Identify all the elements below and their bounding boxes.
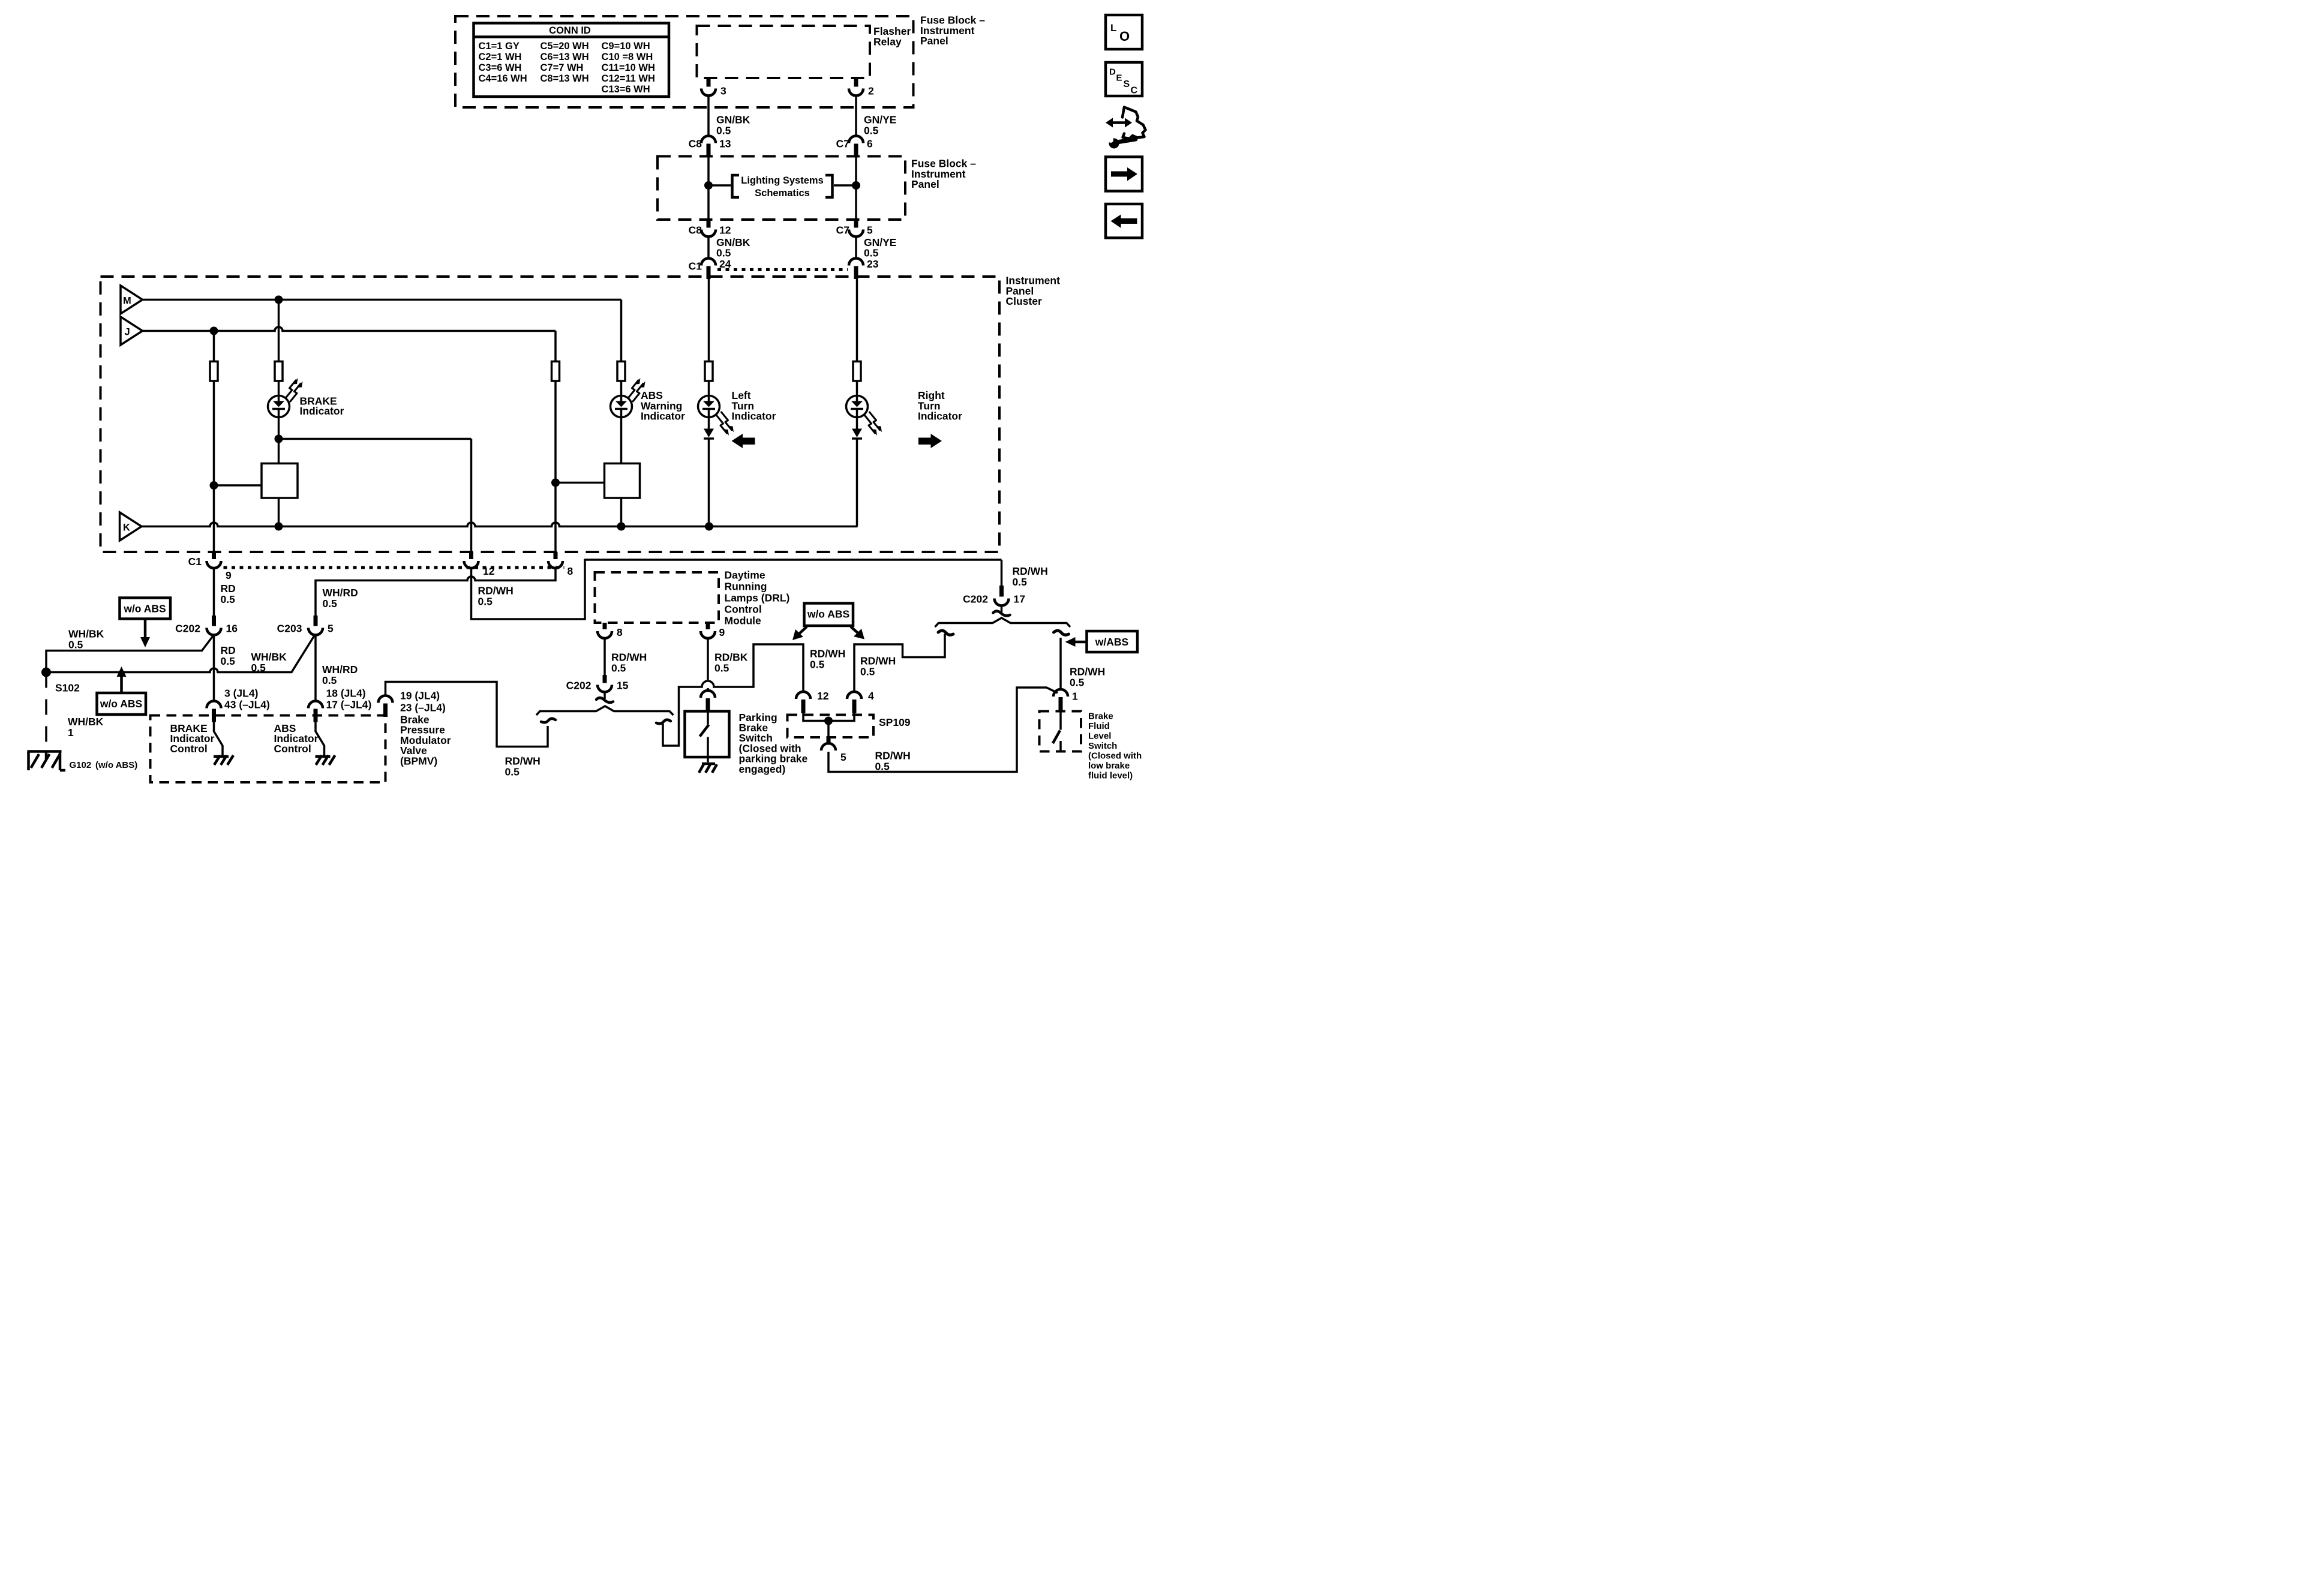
svg-text:(BPMV): (BPMV) bbox=[400, 755, 437, 767]
svg-text:9: 9 bbox=[226, 569, 232, 581]
svg-text:C202: C202 bbox=[566, 680, 591, 692]
ABS indicator control switch to ground bbox=[316, 722, 325, 757]
wire ABS LED to driver bbox=[619, 416, 623, 464]
wire to brake driver box bbox=[214, 484, 262, 488]
DRL control module dashed box bbox=[595, 572, 719, 623]
wire BPMV 19-23 to break bbox=[386, 682, 548, 747]
wire WH/RD below C203-5 bbox=[314, 635, 318, 702]
curl hook P3 start bbox=[656, 720, 671, 724]
arrow w/ABS bbox=[1074, 640, 1087, 645]
arrow w/o ABS right-left bbox=[799, 627, 807, 634]
C202-17 mate break symbol bbox=[999, 606, 1004, 613]
svg-text:K: K bbox=[123, 523, 130, 533]
svg-text:Daytime: Daytime bbox=[725, 569, 765, 581]
svg-text:C1: C1 bbox=[689, 260, 702, 272]
SP109 pin 12 connector bbox=[796, 692, 810, 699]
parking brake switch box bbox=[685, 712, 729, 758]
svg-text:0.5: 0.5 bbox=[323, 598, 338, 610]
svg-text:WH/BK: WH/BK bbox=[68, 628, 104, 640]
resistor ABS branch bbox=[617, 362, 625, 382]
svg-text:0.5: 0.5 bbox=[810, 659, 825, 671]
svg-text:C7: C7 bbox=[836, 224, 849, 236]
wire broken link P2 with chevron bbox=[536, 706, 674, 715]
svg-text:6: 6 bbox=[867, 138, 873, 150]
node to ABS driver bbox=[551, 479, 560, 487]
svg-text:w/ABS: w/ABS bbox=[1095, 636, 1128, 648]
svg-text:S: S bbox=[1124, 79, 1130, 89]
svg-text:C: C bbox=[1131, 86, 1138, 96]
resistor left turn bbox=[705, 362, 713, 382]
svg-text:C3=6 WH: C3=6 WH bbox=[479, 62, 522, 73]
svg-text:0.5: 0.5 bbox=[322, 674, 337, 686]
connector C7 pin 6 bbox=[849, 136, 863, 143]
svg-text:RD/BK: RD/BK bbox=[714, 652, 748, 664]
svg-text:Relay: Relay bbox=[873, 36, 902, 48]
wire GN/YE flasher to fuse block bbox=[854, 96, 858, 136]
wire to bracket left bbox=[708, 184, 731, 188]
splice S102 bbox=[41, 668, 51, 677]
svg-text:WH/RD: WH/RD bbox=[323, 587, 358, 599]
svg-text:M: M bbox=[123, 296, 131, 307]
svg-text:C8: C8 bbox=[689, 138, 702, 150]
svg-text:C5=20 WH: C5=20 WH bbox=[541, 41, 589, 52]
BRAKE driver box bbox=[262, 464, 298, 499]
svg-text:RD/WH: RD/WH bbox=[1070, 666, 1105, 678]
ABS driver box bbox=[605, 464, 640, 499]
wire K bus with hops bbox=[142, 523, 858, 527]
svg-text:E: E bbox=[1116, 73, 1122, 83]
connector triangle J bbox=[121, 317, 143, 345]
wire to bracket right bbox=[834, 184, 856, 188]
wire GN/BK flasher to fuse block bbox=[707, 96, 711, 136]
fuse block middle dashed box bbox=[657, 157, 905, 220]
svg-text:0.5: 0.5 bbox=[611, 662, 626, 674]
wire RD C1-9 to C202-16 bbox=[212, 568, 216, 616]
svg-text:Fuse Block –: Fuse Block – bbox=[911, 158, 976, 170]
ABS warning LED bbox=[611, 378, 645, 418]
wire right turn branch bbox=[855, 279, 859, 362]
svg-text:Module: Module bbox=[725, 615, 762, 627]
svg-text:SP109: SP109 bbox=[879, 716, 911, 728]
svg-text:Panel: Panel bbox=[920, 35, 948, 47]
icon box left arrow bbox=[1106, 204, 1142, 238]
icon box L O bbox=[1106, 15, 1142, 49]
DRL pin 8 connector bbox=[600, 623, 609, 629]
arrow w/o ABS upper bbox=[143, 619, 148, 639]
svg-text:Left: Left bbox=[732, 389, 751, 401]
node junction right bbox=[852, 181, 860, 190]
svg-text:w/o ABS: w/o ABS bbox=[123, 603, 166, 615]
connector C1 pin 8 bbox=[551, 552, 560, 559]
wire inside fuse block left bbox=[707, 155, 711, 220]
svg-text:Lighting Systems: Lighting Systems bbox=[741, 175, 824, 186]
node on J bus bbox=[210, 327, 218, 335]
wire chevron link below C202-17 bbox=[935, 618, 1071, 627]
brake fluid level switch dashed box bbox=[1040, 712, 1082, 752]
wire pin 12 drop bbox=[469, 439, 473, 553]
svg-text:C202: C202 bbox=[963, 593, 988, 605]
svg-text:0.5: 0.5 bbox=[860, 666, 875, 678]
svg-text:engaged): engaged) bbox=[739, 763, 786, 775]
connector C202 pin 15 bbox=[600, 675, 609, 683]
svg-text:Switch: Switch bbox=[1088, 741, 1117, 751]
instrument panel cluster dashed box bbox=[101, 277, 1000, 552]
left turn indicator LED bbox=[698, 396, 734, 436]
resistor pin8 branch bbox=[552, 362, 560, 382]
connector BPMV 3/43 bbox=[207, 701, 221, 709]
connector C8 pin 12 bbox=[704, 220, 713, 228]
svg-text:RD/WH: RD/WH bbox=[1013, 565, 1048, 577]
svg-text:19 (JL4): 19 (JL4) bbox=[400, 690, 440, 702]
connector C202 pin 16 bbox=[210, 616, 218, 626]
C202-15 mate break symbol bbox=[603, 692, 607, 700]
flasher pin 2 connector bbox=[852, 78, 860, 87]
svg-text:43 (–JL4): 43 (–JL4) bbox=[224, 699, 270, 711]
wire M bus bbox=[143, 298, 621, 302]
svg-text:0.5: 0.5 bbox=[864, 247, 879, 259]
svg-text:L: L bbox=[1110, 22, 1116, 34]
svg-text:8: 8 bbox=[568, 565, 574, 577]
wire w/ABS leg to brake fluid switch pin 1 bbox=[1059, 638, 1063, 689]
svg-text:0.5: 0.5 bbox=[221, 655, 236, 667]
svg-text:9: 9 bbox=[719, 626, 725, 638]
wire BRAKE LED down bbox=[277, 416, 281, 464]
node K-left turn bbox=[705, 523, 713, 531]
svg-text:0.5: 0.5 bbox=[714, 662, 729, 674]
svg-text:8: 8 bbox=[617, 626, 623, 638]
svg-text:C1: C1 bbox=[188, 556, 202, 568]
callout w/ABS bbox=[1087, 631, 1138, 652]
svg-text:WH/BK: WH/BK bbox=[68, 716, 104, 728]
svg-text:GN/YE: GN/YE bbox=[864, 236, 896, 248]
resistor M branch bbox=[275, 362, 283, 382]
svg-text:0.5: 0.5 bbox=[251, 662, 266, 674]
svg-text:Valve: Valve bbox=[400, 745, 427, 757]
svg-text:GN/BK: GN/BK bbox=[716, 236, 750, 248]
node on M bus bbox=[275, 296, 283, 304]
flasher relay dashed box bbox=[697, 26, 870, 78]
connector C1 pin 24 bbox=[701, 259, 716, 266]
wire from node to pin 12 drop bbox=[279, 437, 472, 441]
svg-text:parking brake: parking brake bbox=[739, 753, 808, 765]
svg-text:0.5: 0.5 bbox=[221, 593, 236, 605]
callout w/o ABS right bbox=[804, 604, 854, 626]
svg-text:1: 1 bbox=[1072, 691, 1078, 703]
connector C202 pin 17 bbox=[999, 560, 1004, 586]
svg-text:Fluid: Fluid bbox=[1088, 721, 1110, 731]
bracket left bbox=[732, 175, 740, 197]
wire left turn branch bbox=[707, 279, 711, 362]
diode right turn bbox=[852, 417, 862, 527]
svg-text:17: 17 bbox=[1014, 593, 1025, 605]
CONN ID table header separator bbox=[475, 34, 668, 40]
svg-text:Level: Level bbox=[1088, 731, 1111, 742]
diode left turn bbox=[704, 417, 714, 527]
svg-text:Indicator: Indicator bbox=[300, 405, 344, 417]
left turn arrow symbol bbox=[732, 434, 755, 448]
svg-text:C9=10 WH: C9=10 WH bbox=[602, 41, 650, 52]
svg-text:0.5: 0.5 bbox=[68, 639, 83, 651]
svg-text:D: D bbox=[1109, 67, 1116, 77]
svg-text:fluid level): fluid level) bbox=[1088, 771, 1133, 781]
svg-text:Panel: Panel bbox=[911, 178, 939, 190]
svg-text:0.5: 0.5 bbox=[716, 247, 731, 259]
svg-text:1: 1 bbox=[68, 727, 74, 739]
connector BPMV 18/17 bbox=[308, 701, 323, 709]
svg-text:C6=13 WH: C6=13 WH bbox=[541, 52, 589, 62]
ground at parking brake switch bbox=[699, 764, 717, 773]
splice inside SP109 bbox=[803, 713, 854, 721]
wire GN/BK to cluster bbox=[707, 237, 711, 259]
svg-text:RD/WH: RD/WH bbox=[875, 750, 911, 762]
svg-text:C4=16 WH: C4=16 WH bbox=[479, 73, 527, 84]
svg-text:(Closed with: (Closed with bbox=[1088, 751, 1142, 761]
svg-text:RD: RD bbox=[221, 583, 236, 595]
svg-text:(w/o ABS): (w/o ABS) bbox=[95, 760, 137, 770]
svg-text:5: 5 bbox=[840, 751, 846, 763]
svg-text:low brake: low brake bbox=[1088, 761, 1130, 771]
DRL pin 9 connector bbox=[704, 623, 712, 629]
svg-text:WH/RD: WH/RD bbox=[322, 664, 358, 676]
wire M ext vertical at 2071 bbox=[619, 300, 623, 362]
svg-text:Instrument: Instrument bbox=[1006, 275, 1061, 287]
svg-text:RD/WH: RD/WH bbox=[810, 648, 845, 660]
flasher pin 3 connector bbox=[704, 78, 713, 87]
wire RD/BK DRL9 to parking brake switch bbox=[706, 638, 710, 680]
svg-text:0.5: 0.5 bbox=[864, 125, 879, 137]
C1 dotted connector line (bottom) bbox=[224, 565, 565, 571]
curl hook right mate bbox=[1054, 631, 1069, 635]
curl hook P2 left mate bbox=[541, 719, 556, 723]
curl hook left mate bbox=[938, 631, 953, 635]
svg-text:C12=11 WH: C12=11 WH bbox=[602, 73, 655, 84]
svg-text:13: 13 bbox=[719, 138, 731, 150]
svg-text:18 (JL4): 18 (JL4) bbox=[326, 688, 366, 700]
wire to ABS driver box bbox=[556, 481, 605, 485]
svg-text:0.5: 0.5 bbox=[1070, 677, 1085, 689]
connector C1 pin 23 bbox=[849, 259, 863, 266]
BRAKE indicator control switch to ground bbox=[214, 722, 223, 757]
wire RD/WH DRL8 to C202-15 bbox=[603, 638, 607, 675]
wire path P3 to SP109 pin 12 bbox=[663, 644, 803, 746]
icon box D E S C bbox=[1106, 62, 1142, 96]
wire C202-17 leg to SP109 pin 4 bbox=[854, 634, 945, 692]
arrow w/o ABS right-right bbox=[851, 627, 858, 634]
wire RD below C202-16 bbox=[212, 635, 216, 702]
svg-text:GN/BK: GN/BK bbox=[716, 114, 750, 126]
svg-text:Indicator: Indicator bbox=[918, 410, 962, 422]
connector triangle K bbox=[120, 512, 142, 541]
node J branch to brake driver bbox=[210, 481, 218, 490]
brake fluid switch pin 1 connector bbox=[1053, 689, 1068, 697]
svg-text:17 (–JL4): 17 (–JL4) bbox=[326, 699, 372, 711]
svg-text:G102: G102 bbox=[70, 760, 92, 770]
svg-text:5: 5 bbox=[328, 623, 334, 635]
wire ABS driver to K bbox=[619, 498, 623, 527]
svg-text:C8=13 WH: C8=13 WH bbox=[541, 73, 589, 84]
wire WH/BK 1 dashed to ground bbox=[44, 673, 49, 752]
svg-text:C11=10 WH: C11=10 WH bbox=[602, 62, 655, 73]
fuse block outer dashed box (top) bbox=[455, 16, 914, 107]
connector C7 pin 5 bbox=[852, 220, 860, 228]
node K-abs driver bbox=[617, 523, 626, 531]
svg-text:23: 23 bbox=[867, 258, 879, 270]
svg-text:RD/WH: RD/WH bbox=[611, 652, 647, 664]
svg-text:Cluster: Cluster bbox=[1006, 295, 1042, 307]
svg-text:15: 15 bbox=[617, 680, 629, 692]
svg-text:12: 12 bbox=[817, 690, 829, 702]
wire cluster pin8 to C203-5 bbox=[316, 568, 556, 616]
wire J bus with hop bbox=[143, 327, 556, 331]
svg-text:w/o ABS: w/o ABS bbox=[100, 698, 142, 710]
svg-text:Flasher: Flasher bbox=[873, 25, 911, 37]
svg-text:Indicator: Indicator bbox=[641, 410, 685, 422]
svg-text:C202: C202 bbox=[175, 623, 200, 635]
svg-text:3: 3 bbox=[720, 85, 726, 97]
svg-text:Running: Running bbox=[725, 581, 767, 593]
svg-text:WH/BK: WH/BK bbox=[251, 651, 287, 663]
svg-text:C10 =8 WH: C10 =8 WH bbox=[602, 52, 653, 62]
svg-text:0.5: 0.5 bbox=[478, 596, 493, 608]
connector C1 pin 9 bbox=[210, 552, 218, 559]
parking brake switch contacts bbox=[700, 712, 709, 763]
CONN ID table frame bbox=[474, 23, 669, 97]
wire J ext vertical at 1852 bbox=[554, 331, 558, 362]
connector C1 pin 12 bbox=[467, 552, 476, 559]
svg-text:Switch: Switch bbox=[739, 732, 773, 744]
svg-text:J: J bbox=[125, 327, 130, 338]
resistor right turn bbox=[853, 362, 861, 382]
wire M branch vertical bbox=[277, 300, 281, 362]
node below BRAKE LED bbox=[275, 435, 283, 443]
svg-text:w/o ABS: w/o ABS bbox=[807, 608, 849, 620]
svg-text:Control: Control bbox=[274, 743, 311, 755]
svg-text:RD/WH: RD/WH bbox=[478, 585, 514, 597]
svg-text:5: 5 bbox=[867, 224, 873, 236]
svg-text:Fuse Block –: Fuse Block – bbox=[920, 14, 985, 26]
icon wrench and double arrow bbox=[1106, 107, 1146, 149]
svg-text:ABS: ABS bbox=[641, 389, 663, 401]
wire resistor to ABS LED bbox=[619, 381, 623, 397]
wire S102 bus with hop to C203-5 diagonal bbox=[46, 636, 314, 673]
svg-text:3 (JL4): 3 (JL4) bbox=[224, 688, 258, 700]
SP109 pin 4 connector bbox=[847, 692, 861, 699]
callout w/o ABS upper bbox=[120, 598, 171, 619]
bracket right bbox=[825, 175, 833, 197]
wire GN/YE to cluster bbox=[854, 237, 858, 259]
wire resistor to BRAKE LED bbox=[277, 381, 281, 397]
svg-text:Lamps (DRL): Lamps (DRL) bbox=[725, 592, 790, 604]
wire pin8 branch down bbox=[554, 381, 558, 552]
SP109 pin 5 connector bbox=[824, 737, 833, 745]
wire J branch vertical bbox=[212, 331, 216, 362]
svg-text:0.5: 0.5 bbox=[1013, 576, 1028, 588]
node K-brake driver bbox=[275, 523, 283, 531]
svg-text:16: 16 bbox=[226, 623, 238, 635]
svg-text:2: 2 bbox=[868, 85, 874, 97]
callout w/o ABS lower bbox=[97, 693, 146, 715]
wire cluster pin12 to long bus bbox=[472, 560, 1002, 619]
C1 dotted connector line (top) bbox=[717, 267, 848, 273]
icon box right arrow bbox=[1106, 157, 1142, 191]
svg-text:12: 12 bbox=[719, 224, 731, 236]
svg-text:C203: C203 bbox=[277, 623, 302, 635]
svg-text:C2=1 WH: C2=1 WH bbox=[479, 52, 522, 62]
svg-text:Control: Control bbox=[725, 604, 762, 616]
wire brake driver to K bbox=[277, 498, 281, 527]
wire WH/BK diagonal from C202-16 bbox=[46, 636, 214, 668]
connector triangle M bbox=[121, 286, 143, 314]
svg-text:CONN ID: CONN ID bbox=[549, 25, 591, 36]
svg-text:Pressure: Pressure bbox=[400, 724, 445, 736]
wire inside fuse block right bbox=[854, 155, 858, 220]
svg-text:RD: RD bbox=[221, 644, 236, 656]
svg-text:C7=7 WH: C7=7 WH bbox=[541, 62, 584, 73]
svg-text:23 (–JL4): 23 (–JL4) bbox=[400, 702, 446, 714]
svg-text:0.5: 0.5 bbox=[505, 766, 520, 778]
wire RD/WH SP109-5 to brake fluid switch bbox=[828, 688, 1058, 772]
svg-text:RD/WH: RD/WH bbox=[860, 655, 896, 667]
svg-text:0.5: 0.5 bbox=[716, 125, 731, 137]
svg-text:Brake: Brake bbox=[1088, 712, 1113, 722]
svg-text:C1=1 GY: C1=1 GY bbox=[479, 41, 520, 52]
node junction left bbox=[704, 181, 713, 190]
svg-text:C13=6 WH: C13=6 WH bbox=[602, 84, 650, 95]
svg-text:S102: S102 bbox=[55, 682, 80, 694]
svg-text:Control: Control bbox=[170, 743, 208, 755]
BRAKE indicator LED bbox=[268, 378, 303, 418]
svg-text:0.5: 0.5 bbox=[875, 761, 890, 773]
svg-text:4: 4 bbox=[868, 690, 874, 702]
arrow w/o ABS lower bbox=[119, 676, 124, 693]
brake fluid switch contacts bbox=[1053, 712, 1061, 752]
svg-text:C7: C7 bbox=[836, 138, 849, 150]
BPMV dashed box bbox=[151, 716, 386, 783]
svg-text:Indicator: Indicator bbox=[732, 410, 776, 422]
connector BPMV 19/23 bbox=[379, 696, 393, 703]
svg-text:O: O bbox=[1119, 29, 1130, 44]
right turn arrow symbol bbox=[918, 434, 942, 448]
svg-text:RD/WH: RD/WH bbox=[505, 755, 541, 767]
svg-text:C8: C8 bbox=[689, 224, 702, 236]
right turn indicator LED bbox=[846, 396, 882, 436]
svg-text:GN/YE: GN/YE bbox=[864, 114, 896, 126]
svg-text:Schematics: Schematics bbox=[755, 188, 810, 199]
connector C8 pin 13 bbox=[701, 136, 716, 143]
ground G102 bbox=[28, 752, 66, 771]
SP109 dashed box bbox=[788, 715, 874, 738]
resistor J branch bbox=[210, 362, 218, 382]
parking brake switch pin connector bbox=[701, 691, 715, 698]
wire J branch to driver and C1 pin 9 bbox=[212, 381, 216, 552]
connector C203 pin 5 bbox=[311, 616, 320, 626]
svg-text:Right: Right bbox=[918, 389, 945, 401]
